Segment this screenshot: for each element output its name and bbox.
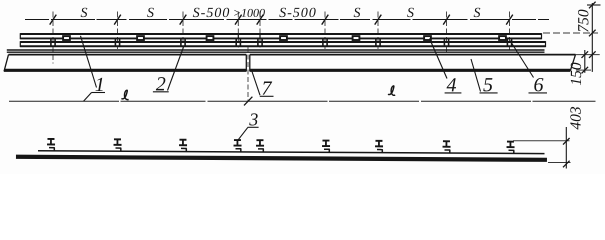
callout leader 2	[168, 47, 184, 91]
beam right section	[250, 55, 576, 72]
dimension tick at x=238.3	[235, 15, 242, 25]
extension centre line at x=117.5	[117, 12, 119, 50]
extension line at beam bottom	[576, 69, 591, 71]
reference line at sill bottom level	[548, 162, 571, 164]
callout leader 1	[81, 36, 97, 88]
jack support 6 at x=326	[322, 141, 330, 153]
extension centre line at x=238.3	[237, 12, 239, 48]
dimension tick at x=509.5	[506, 15, 513, 25]
callout leader 4	[430, 39, 448, 79]
extension centre line at x=183	[182, 12, 184, 50]
extension centre line at x=509.5	[509, 12, 511, 51]
plank 2 walkway board	[20, 41, 545, 47]
callout leader 6	[510, 41, 534, 78]
tick at beam top level on 750 line	[589, 51, 596, 58]
clip fastener at x=66.5	[63, 36, 70, 40]
beam left section	[4, 55, 246, 72]
extension centre line at x=325	[324, 12, 326, 50]
callout number 5	[483, 78, 492, 91]
extension centre line at x=53	[52, 12, 54, 64]
dimension line 403 (vertical)	[565, 127, 567, 169]
dimension tick at x=446.5	[443, 15, 450, 25]
dimension label S at x=410.5	[407, 8, 414, 17]
jack support 9 at x=510.5	[506, 142, 514, 154]
dimension label S at x=357	[354, 8, 361, 17]
label l (left)	[121, 90, 128, 99]
callout number 4	[447, 78, 457, 91]
extension centre line at x=446.5	[446, 12, 448, 53]
plank 3 thin board	[7, 50, 545, 52]
dimension label S-500 (right)	[279, 8, 315, 17]
extension line beam top continues	[576, 54, 600, 56]
dimension line 150 (vertical)	[584, 50, 586, 73]
dimension tick at x=53	[50, 15, 57, 25]
dimension label S-500 (left)	[193, 8, 229, 17]
tick at plank1 top level	[589, 30, 596, 37]
label 750	[578, 10, 588, 32]
dimension line (top, spacing S)	[25, 19, 549, 21]
plank 1 top rail board	[20, 33, 541, 39]
clip fastener at x=210	[207, 36, 214, 40]
jack support 5 at x=260	[256, 140, 264, 152]
callout leader 5	[471, 59, 481, 92]
extension line from plank1 top	[543, 32, 598, 34]
tick 150 bottom	[582, 67, 589, 74]
jack support 3 at x=183	[179, 140, 187, 152]
post at x=325	[323, 39, 327, 47]
tick 403 top	[563, 138, 570, 145]
post at x=509.5	[507, 39, 511, 47]
clip fastener at x=502.5	[499, 36, 506, 40]
jack support 1 at x=51	[47, 139, 55, 151]
bottom sill board	[16, 151, 547, 160]
clip fastener at x=356	[353, 36, 360, 40]
post at x=260	[258, 39, 262, 47]
jack support 2 at x=117.5	[113, 139, 121, 151]
tick 150 top	[582, 51, 589, 58]
callout number 1	[96, 78, 103, 91]
clip fastener at x=427.5	[424, 36, 431, 40]
callout tail 1	[84, 93, 92, 102]
post at x=238.3	[236, 39, 240, 47]
dimension label S at x=150.5	[147, 8, 154, 17]
post at x=378	[376, 39, 380, 47]
clip fastener at x=140.5	[137, 36, 144, 40]
dimension label S at x=84	[81, 8, 88, 17]
jack support 4 at x=237.5	[233, 140, 241, 152]
dimension label S at x=477	[474, 8, 481, 17]
top reference line	[587, 4, 601, 6]
clip fastener at x=283.5	[280, 36, 287, 40]
label 150	[571, 63, 581, 85]
reference line at jack top level	[513, 140, 570, 142]
dimension label >1000	[234, 9, 265, 17]
dimension tick at x=378	[375, 15, 382, 25]
post at x=446.5	[444, 39, 448, 47]
callout number 7	[263, 82, 273, 95]
tick 403 bottom	[563, 161, 570, 168]
callout number 6	[534, 78, 543, 91]
callout leader 7	[252, 72, 260, 96]
length line centre tick	[244, 97, 252, 106]
jack support 7 at x=379	[375, 141, 383, 153]
length line l	[9, 100, 596, 102]
post at x=53	[51, 39, 55, 47]
jack support 8 at x=446.5	[442, 141, 450, 153]
tick 750 top	[589, 2, 596, 9]
post at x=117.5	[115, 39, 119, 47]
label l (right)	[388, 86, 395, 95]
dimension tick at x=260	[257, 15, 264, 25]
beam joint centre line	[247, 47, 249, 101]
callout leader 3	[238, 127, 248, 140]
extension centre line at x=260	[259, 12, 261, 48]
callout number 2	[156, 77, 166, 90]
dimension tick at x=325	[322, 15, 329, 25]
callout number 3	[249, 113, 257, 125]
dimension tick at x=117.5	[114, 15, 121, 25]
dimension tick at x=183	[180, 15, 187, 25]
post at x=183	[181, 39, 185, 47]
label 403	[570, 107, 580, 130]
extension centre line at x=378	[377, 12, 379, 50]
dimension line 750 (vertical)	[591, 3, 593, 72]
